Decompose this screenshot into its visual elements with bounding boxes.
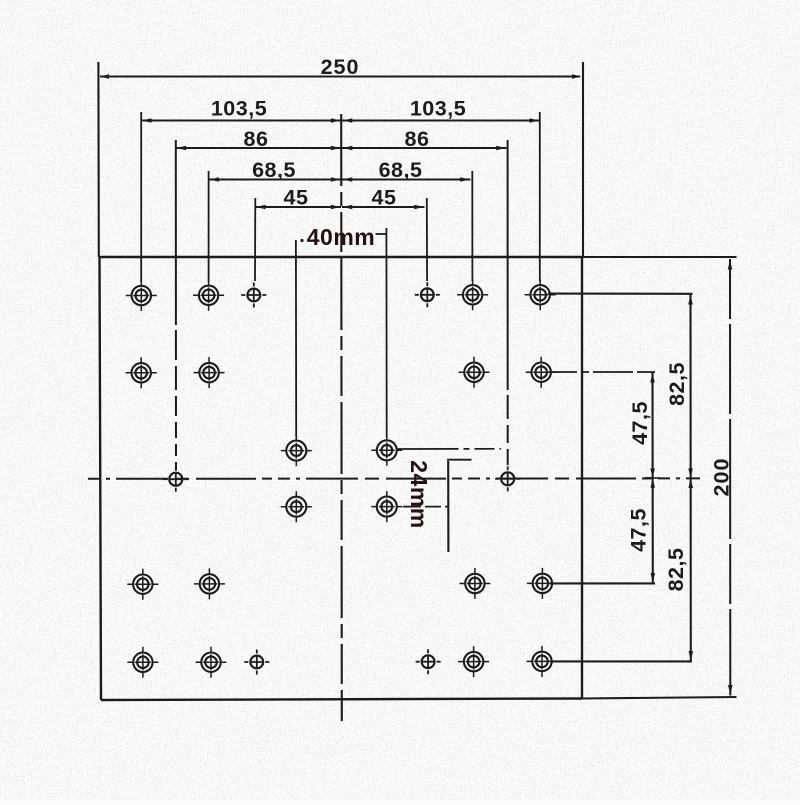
dimension line 45 left: [255, 205, 341, 210]
hole row2 col2 right: [459, 357, 490, 388]
hole row4 col1 left: [127, 569, 158, 600]
label 40mm with tick: [300, 224, 386, 250]
dimension line 68.5 right: [342, 177, 471, 182]
hole row1 col1 left: [126, 280, 157, 311]
hole row1 small left: [241, 283, 266, 308]
svg-text:103,5: 103,5: [211, 97, 267, 121]
hole row5 col1 right: [527, 646, 558, 677]
leader from hole row4 right to 47.5 dim: [550, 582, 655, 584]
plate bottom edge extension to 200 dim: [582, 697, 737, 699]
hole row4 col2 left: [194, 568, 225, 599]
extension line 250 left: [97, 62, 100, 257]
svg-text:82,5: 82,5: [665, 362, 689, 406]
extension line 68.5 left: [208, 171, 210, 282]
plate top edge extension to 200 dim: [582, 256, 737, 258]
svg-text:86: 86: [244, 127, 269, 151]
hole row5 small left: [244, 650, 269, 675]
hole row1 col2 right: [457, 279, 488, 310]
extension line 103.5 right: [539, 112, 541, 281]
hole row5 col2 left: [196, 647, 227, 678]
hole row5 col1 left: [127, 647, 158, 678]
hole centerline right: [495, 466, 520, 491]
extension line 40mm right: [385, 228, 387, 437]
dimension line 68.5 left: [209, 177, 342, 182]
dimension line 47.5 vertical: [645, 372, 660, 584]
plate outline: [99, 257, 582, 700]
hole centerline left: [163, 467, 188, 492]
hole row1 small right: [415, 282, 440, 307]
svg-text:40mm: 40mm: [307, 224, 375, 250]
extension line 45 left: [254, 198, 256, 281]
hole row4 col2 right: [459, 568, 490, 599]
svg-text:250: 250: [321, 55, 360, 79]
dimension line 86 right: [342, 146, 507, 151]
24mm reference line upper: [397, 448, 502, 450]
extension line 86 left: [175, 140, 177, 470]
dimension line 200 vertical: [728, 259, 733, 696]
hole row1 col1 right: [525, 279, 556, 310]
leader from hole row5 right to 82.5 dim: [550, 660, 692, 662]
hole row2 col1 left: [126, 357, 157, 388]
extension line 40mm left: [295, 240, 297, 437]
svg-text:45: 45: [284, 186, 309, 210]
leader from hole row2 right to 47.5 dim: [549, 371, 655, 373]
dimension line 103.5 left: [141, 118, 341, 123]
dimension line 250: [100, 74, 582, 79]
dimension line 86 left: [176, 146, 341, 151]
hole mid lower left: [281, 491, 312, 522]
hole mid upper right: [371, 435, 402, 466]
extension line 86 right: [507, 140, 509, 470]
24mm tick: [447, 459, 472, 461]
svg-text:103,5: 103,5: [410, 97, 466, 121]
hole mid upper left: [281, 435, 312, 466]
svg-text:24mm: 24mm: [406, 460, 432, 528]
svg-text:47,5: 47,5: [628, 401, 652, 445]
hole row5 small right: [416, 649, 441, 674]
hole row2 col2 left: [194, 357, 225, 388]
horizontal centerline: [88, 477, 700, 479]
svg-text:200: 200: [710, 458, 734, 497]
hole mid lower right: [371, 491, 402, 522]
24mm reference line lower: [403, 506, 448, 508]
hole row5 col2 right: [458, 646, 489, 677]
dimension line 103.5 right: [342, 118, 540, 123]
extension line 68.5 right: [471, 171, 473, 281]
vertical centerline: [340, 114, 343, 721]
hole row1 col2 left: [193, 280, 224, 311]
svg-text:68,5: 68,5: [252, 158, 296, 182]
svg-text:47,5: 47,5: [627, 508, 651, 552]
dimension line 45 right: [342, 205, 425, 210]
leader from hole row1 right to 82.5 dim: [548, 293, 693, 295]
scan grain filter: [0, 0, 1, 1]
hole row2 col1 right: [526, 357, 557, 388]
svg-text:86: 86: [405, 127, 430, 151]
extension line 103.5 left: [140, 112, 142, 282]
svg-text:45: 45: [372, 186, 397, 210]
24mm dimension line vertical: [447, 461, 449, 552]
extension line 250 right: [582, 62, 584, 257]
extension line 45 right: [426, 198, 428, 281]
svg-text:82,5: 82,5: [664, 548, 688, 592]
dimension line 82.5 vertical: [688, 294, 693, 662]
hole row4 col1 right: [527, 568, 558, 599]
svg-text:68,5: 68,5: [379, 158, 423, 182]
